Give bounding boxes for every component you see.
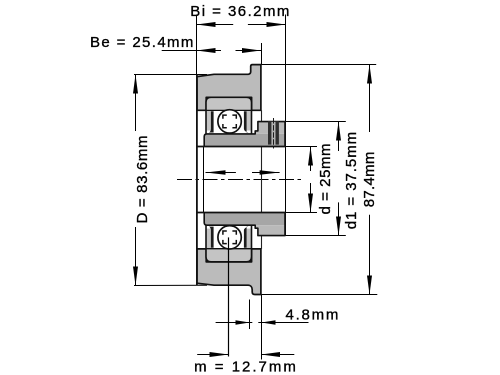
- svg-text:d1 = 37.5mm: d1 = 37.5mm: [343, 131, 360, 229]
- svg-text:4.8mm: 4.8mm: [286, 307, 341, 324]
- svg-text:Be = 25.4mm: Be = 25.4mm: [90, 34, 195, 51]
- svg-text:Bi = 36.2mm: Bi = 36.2mm: [190, 3, 291, 20]
- svg-text:87.4mm: 87.4mm: [361, 151, 378, 207]
- svg-text:m = 12.7mm: m = 12.7mm: [194, 359, 298, 375]
- svg-text:D = 83.6mm: D = 83.6mm: [134, 135, 151, 224]
- svg-text:d = 25mm: d = 25mm: [317, 143, 334, 215]
